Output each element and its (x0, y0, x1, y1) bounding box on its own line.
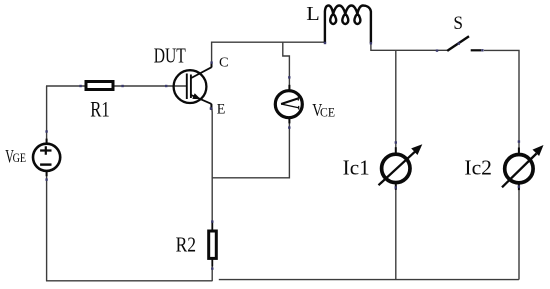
VCE top pin stub (288, 85, 290, 91)
inductor L coil (325, 6, 371, 43)
wire: bottom left horizontal (46, 280, 212, 282)
wire: gate loop left horizontal (46, 85, 85, 87)
wire: switch right to Ic2 corner (484, 50, 519, 152)
wire: emitter vertical down to R2 (211, 105, 214, 231)
svg-text:R2: R2 (176, 232, 197, 256)
voltmeter V glyph serif bottom (298, 106, 300, 110)
wire: R1 to gate (115, 85, 188, 87)
voltmeter VCE circle (275, 91, 302, 118)
Ic2 bottom pin stub (518, 185, 520, 191)
node tick bottom junction (210, 266, 212, 268)
switch S right contact stub (471, 49, 482, 51)
ammeter Ic2 arrow head (533, 145, 544, 156)
svg-text:GE: GE (13, 151, 26, 165)
IGBT collector diagonal (191, 67, 211, 78)
wire: Ic1 bottom lead (395, 185, 397, 280)
voltmeter V glyph upper stroke (281, 99, 298, 105)
node tick L right (370, 42, 372, 44)
wire: inductor right step to switch (371, 43, 449, 51)
VGE plus sign (40, 146, 51, 154)
DUT emitter pin stub (210, 104, 212, 110)
node tick switch contact right (481, 49, 483, 51)
ammeter Ic2 circle (505, 155, 533, 183)
node tick Ic1 bottom (395, 186, 397, 188)
R2 bottom pin stub (211, 260, 213, 267)
IGBT body bar (190, 75, 192, 99)
node tick Ic1 top (395, 141, 397, 143)
node tick Ic2 top (518, 140, 520, 142)
Ic1 top pin stub (395, 147, 397, 153)
Ic2 top pin stub (518, 148, 520, 154)
node tick VGE top (45, 130, 47, 132)
svg-text:E: E (217, 101, 226, 117)
transistor DUT (IGBT) circle (174, 70, 207, 103)
wire: left vertical above VGE (46, 86, 48, 144)
VCE bottom pin stub (288, 118, 290, 124)
switch S blade (447, 36, 469, 51)
svg-text:DUT: DUT (154, 43, 186, 67)
svg-text:S: S (453, 13, 463, 34)
node tick E terminal (210, 107, 212, 109)
VGE bottom pin stub (46, 171, 48, 176)
IGBT emitter arrow (192, 93, 201, 99)
resistor R2 (209, 231, 217, 258)
node tick Ic2 bottom (518, 185, 520, 187)
node tick VCE bottom (288, 126, 290, 128)
svg-text:C: C (219, 55, 229, 70)
VGE minus sign (40, 163, 51, 165)
svg-text:CE: CE (320, 105, 335, 119)
IGBT gate bar (186, 74, 188, 100)
wire: bottom right horizontal (219, 279, 519, 281)
svg-text:R1: R1 (90, 97, 110, 122)
svg-text:Ic1: Ic1 (343, 156, 370, 180)
wire: Ic1 top lead (395, 50, 397, 152)
wire: Ic2 bottom lead (518, 186, 520, 280)
VGE top pin stub (46, 139, 48, 144)
node tick R1 left (79, 85, 81, 87)
ammeter Ic1 arrow shaft (379, 151, 416, 185)
wire: left vertical below VGE (46, 171, 48, 281)
R2 top pin stub (211, 223, 213, 231)
node tick switch blade mid (458, 42, 460, 44)
voltage source VGE (33, 144, 60, 171)
wire: R2 bottom lead (211, 260, 213, 281)
DUT collector pin stub (211, 63, 213, 68)
node tick VCE top (288, 76, 290, 78)
node tick gate (165, 85, 167, 87)
node tick C terminal (210, 61, 212, 63)
svg-text:Ic2: Ic2 (464, 156, 492, 180)
wire: VCE top branch zigzag (283, 42, 290, 89)
voltmeter V glyph lower stroke (281, 104, 298, 108)
wire: collector vertical and top horizontal (212, 42, 325, 67)
wire: VCE bottom branch to emitter node (212, 119, 289, 178)
node tick switch left (436, 49, 438, 51)
node tick L left (324, 42, 326, 44)
svg-text:L: L (306, 3, 320, 25)
IGBT emitter diagonal (191, 95, 211, 104)
node tick VGE bottom (45, 178, 47, 180)
voltmeter V glyph serif top (297, 97, 299, 101)
node tick R2 top (211, 220, 213, 222)
ammeter Ic1 arrow head (411, 144, 422, 155)
ammeter Ic1 circle (382, 154, 410, 182)
resistor R1 (86, 82, 113, 90)
node tick R2 bottom (211, 267, 213, 269)
ammeter Ic2 arrow shaft (502, 154, 537, 188)
Ic1 bottom pin stub (395, 184, 397, 190)
node tick R1 right (121, 85, 123, 87)
